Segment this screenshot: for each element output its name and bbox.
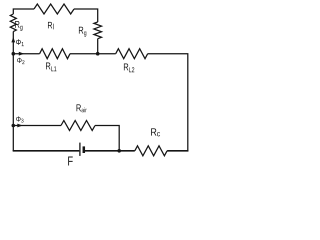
resistor Rair: [61, 121, 95, 131]
wire lower-left segment: [13, 125, 61, 127]
wire middle left segment: [13, 53, 39, 55]
resistor RL1: [40, 49, 70, 59]
wire lower-right segment down to bottom: [95, 126, 119, 151]
node dot bottom junction: [117, 149, 121, 153]
label F: [68, 157, 73, 166]
wire bottom-right segment: [167, 150, 188, 152]
label phi1: [16, 39, 24, 46]
resistor R1: [34, 4, 74, 14]
node dot Rg right junction: [96, 52, 100, 56]
label phi2: [17, 58, 24, 64]
label RL2: [124, 64, 134, 73]
battery F short plate: [83, 146, 86, 153]
node dot phi1/phi2 junction: [12, 52, 16, 56]
arrow phi2 right: [19, 52, 24, 56]
label Rair: [77, 104, 87, 112]
wire bottom left segment: [13, 150, 80, 152]
arrow phi3 right: [17, 124, 22, 128]
label phi3: [16, 116, 23, 122]
wire middle center segment: [70, 53, 116, 55]
label RL1: [46, 63, 56, 72]
resistor Rg left: [10, 14, 16, 32]
label Rg_right: [79, 27, 86, 37]
wire top-right corner: [74, 9, 98, 22]
wire middle-right and right edge: [148, 54, 188, 151]
label RC: [151, 128, 160, 136]
label Rg_left: [15, 21, 22, 31]
battery F long plate: [79, 143, 81, 156]
wire left vertical: [12, 32, 14, 152]
wire Rg right lead to node: [97, 39, 99, 54]
resistor RL2: [116, 49, 148, 59]
wire top-left corner: [13, 9, 34, 14]
wire bottom between battery and RC: [85, 150, 135, 152]
resistor Rg right: [94, 22, 102, 39]
label R1: [48, 22, 54, 30]
arrow phi1 up: [11, 37, 15, 42]
node dot phi3 junction: [12, 124, 16, 128]
resistor RC: [135, 146, 167, 156]
